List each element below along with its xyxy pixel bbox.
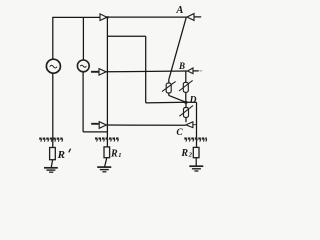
- svg-text:2: 2: [188, 152, 193, 159]
- svg-text:1: 1: [118, 152, 121, 159]
- svg-text:R: R: [180, 148, 188, 159]
- svg-text:R: R: [110, 148, 118, 159]
- svg-text:C: C: [176, 128, 183, 138]
- svg-text:R: R: [57, 149, 65, 161]
- svg-text:A: A: [175, 5, 183, 16]
- svg-text:D: D: [189, 96, 197, 106]
- svg-text:B: B: [178, 61, 185, 71]
